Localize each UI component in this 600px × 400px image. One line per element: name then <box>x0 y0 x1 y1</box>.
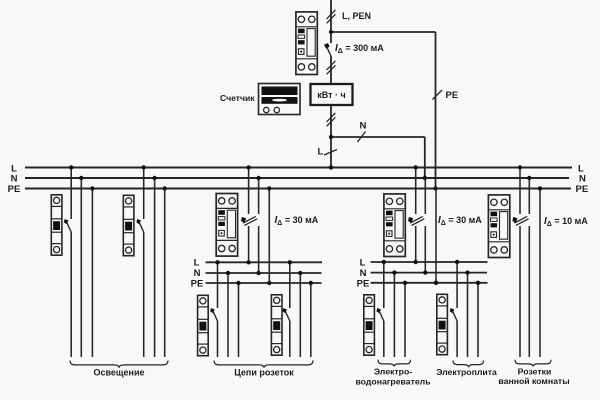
svg-text:L, PEN: L, PEN <box>342 11 371 21</box>
svg-text:PE: PE <box>191 279 204 290</box>
svg-text:Электроплита: Электроплита <box>436 367 497 377</box>
svg-text:Электро-: Электро- <box>374 367 412 377</box>
svg-text:N: N <box>194 268 201 279</box>
svg-text:IΔ = 300 мА: IΔ = 300 мА <box>335 43 384 55</box>
svg-text:PE: PE <box>357 278 370 289</box>
svg-text:PE: PE <box>8 184 21 195</box>
svg-text:Освещение: Освещение <box>94 368 145 378</box>
svg-text:ванной комнаты: ванной комнаты <box>498 376 569 386</box>
svg-text:PE: PE <box>446 90 459 101</box>
svg-text:L: L <box>318 147 324 158</box>
svg-text:кВт · ч: кВт · ч <box>317 90 346 100</box>
svg-text:L: L <box>194 258 200 269</box>
svg-text:IΔ = 10 мА: IΔ = 10 мА <box>544 216 588 228</box>
svg-text:N: N <box>579 174 586 185</box>
svg-text:N: N <box>360 268 367 279</box>
svg-text:IΔ = 30 мА: IΔ = 30 мА <box>438 215 482 227</box>
svg-text:IΔ = 30 мА: IΔ = 30 мА <box>275 215 319 227</box>
svg-text:водонагреватель: водонагреватель <box>355 377 430 387</box>
svg-text:Счетчик: Счетчик <box>220 93 255 103</box>
svg-text:L: L <box>360 257 366 268</box>
svg-text:N: N <box>360 121 367 132</box>
svg-text:PE: PE <box>576 184 589 195</box>
svg-text:Розетки: Розетки <box>518 367 552 377</box>
svg-text:N: N <box>11 174 18 185</box>
svg-text:Цепи розеток: Цепи розеток <box>234 368 294 378</box>
